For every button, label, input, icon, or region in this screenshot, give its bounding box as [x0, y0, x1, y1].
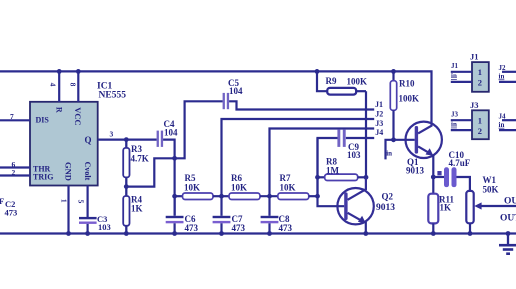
- svg-text:103: 103: [98, 222, 111, 232]
- wire bottom GND rail: [0, 232, 516, 234]
- svg-text:104: 104: [229, 86, 243, 96]
- resistor R4: [125, 187, 127, 197]
- resistor R9: [317, 71, 327, 91]
- svg-text:473: 473: [232, 223, 246, 233]
- svg-text:1M: 1M: [326, 166, 340, 176]
- svg-text:5: 5: [77, 200, 86, 204]
- svg-text:Cvolt: Cvolt: [83, 162, 92, 181]
- capacitor C10 plus marker: [437, 171, 441, 175]
- node dot pin4 rail: [57, 69, 62, 74]
- connector J3 pin1 wire: [451, 119, 472, 121]
- node dot Q2 emitter rail: [363, 231, 368, 236]
- svg-text:50K: 50K: [483, 184, 499, 194]
- svg-text:10K: 10K: [231, 183, 247, 193]
- svg-text:J2: J2: [499, 64, 507, 72]
- connector J3 box: [472, 110, 489, 139]
- svg-text:J1: J1: [375, 100, 383, 109]
- svg-text:R3: R3: [131, 144, 142, 154]
- node dot R4 rail: [124, 231, 129, 236]
- wire J2 bus: [222, 119, 375, 196]
- svg-text:DIS: DIS: [36, 116, 50, 125]
- svg-text:in: in: [499, 121, 505, 129]
- wire pin 1 GND: [67, 186, 69, 234]
- wire pin 5 Cvolt: [86, 186, 88, 218]
- capacitor C9 plates: [337, 129, 340, 147]
- svg-text:J1: J1: [470, 52, 479, 62]
- ground symbol: [507, 234, 509, 245]
- svg-text:1K: 1K: [440, 202, 452, 212]
- svg-text:1K: 1K: [131, 204, 143, 214]
- node dot R10 rail top: [391, 69, 396, 74]
- wire pin 7 DIS: [0, 119, 30, 121]
- node dot R7 right: [315, 194, 320, 199]
- svg-text:4: 4: [49, 83, 58, 87]
- svg-text:F: F: [0, 196, 4, 206]
- node dot R10 base wire: [391, 137, 396, 142]
- wire R8 left vertical: [316, 138, 318, 196]
- resistor R10: [392, 71, 394, 81]
- svg-text:J3: J3: [375, 119, 383, 128]
- svg-text:10K: 10K: [184, 183, 200, 193]
- wire pin 8 stub: [77, 71, 79, 101]
- wire R3 bottom step to node: [126, 158, 174, 186]
- node dot C7 rail: [219, 231, 224, 236]
- transistor Q1 circle: [406, 122, 442, 158]
- capacitor C3 plates: [79, 217, 97, 219]
- wire pin 6 THR: [0, 166, 30, 168]
- node dot R9 rail top: [315, 69, 320, 74]
- svg-text:473: 473: [5, 208, 18, 218]
- capacitor C6: [174, 196, 176, 216]
- capacitor C10 wire left: [433, 176, 444, 178]
- capacitor C4 plates: [157, 131, 159, 147]
- svg-text:GND: GND: [63, 162, 73, 181]
- wire C5 to J1 bus: [229, 101, 374, 109]
- svg-text:R: R: [55, 107, 64, 113]
- node dot C6 rail: [172, 231, 177, 236]
- svg-text:1: 1: [478, 116, 482, 126]
- svg-text:473: 473: [279, 223, 293, 233]
- node dot pin8 rail: [76, 69, 81, 74]
- svg-text:J2: J2: [375, 109, 383, 118]
- resistor R5: [175, 195, 183, 197]
- capacitor C8: [268, 196, 270, 216]
- svg-text:10K: 10K: [280, 183, 296, 193]
- potentiometer W1 body: [466, 191, 473, 223]
- node dot R3 bottom: [124, 184, 129, 189]
- svg-text:TRIG: TRIG: [33, 172, 53, 181]
- svg-text:J4: J4: [499, 112, 507, 120]
- wire top VCC rail: [0, 71, 432, 121]
- node dot R3 top: [124, 137, 129, 142]
- wire J4 bus right: [346, 137, 374, 139]
- svg-text:R10: R10: [399, 78, 415, 88]
- node dot C4 junction: [172, 156, 177, 161]
- transistor Q2 circle: [337, 188, 373, 224]
- resistor R8: [318, 176, 325, 178]
- transistor Q1 emitter: [418, 146, 431, 154]
- capacitor C7: [220, 196, 222, 216]
- resistor R3: [125, 140, 127, 149]
- svg-text:in: in: [451, 121, 457, 129]
- svg-text:J1: J1: [451, 62, 459, 70]
- svg-text:J4: J4: [375, 128, 383, 137]
- svg-text:1: 1: [60, 199, 69, 203]
- node dot R8 right: [364, 175, 369, 180]
- svg-text:J3: J3: [470, 100, 479, 110]
- wire C3 bottom: [86, 224, 88, 234]
- svg-text:2: 2: [478, 77, 482, 87]
- node dot C3 rail: [85, 231, 90, 236]
- svg-text:NE555: NE555: [99, 91, 127, 101]
- wire C4 out corner: [163, 140, 175, 159]
- connector J2 right wires: [502, 71, 516, 73]
- wire in stub: [386, 140, 415, 160]
- svg-text:4.7K: 4.7K: [131, 153, 149, 163]
- svg-text:in: in: [499, 72, 505, 80]
- svg-text:in: in: [386, 150, 392, 158]
- capacitor C5 plates: [223, 93, 225, 109]
- connector J1 box: [472, 62, 489, 92]
- svg-text:103: 103: [347, 150, 361, 160]
- svg-text:9013: 9013: [376, 203, 395, 213]
- transistor Q1 base bar: [415, 126, 418, 154]
- node dot R6-R7: [267, 194, 272, 199]
- svg-text:473: 473: [185, 223, 199, 233]
- node dot pin1 rail: [66, 231, 71, 236]
- resistor R11: [428, 194, 438, 224]
- wire pin 3 Q output: [98, 139, 157, 141]
- node dot ground: [506, 231, 511, 236]
- transistor Q2 collector: [348, 177, 366, 200]
- resistor R6: [229, 193, 260, 200]
- IC U1 NE555 body: [30, 102, 98, 186]
- svg-text:2: 2: [478, 126, 482, 136]
- transistor Q2 emitter: [348, 213, 364, 222]
- potentiometer W1 wiper arrow: [478, 205, 516, 207]
- node dot R11 rail: [431, 231, 436, 236]
- svg-text:Q: Q: [85, 135, 92, 145]
- wire J3 bus: [270, 129, 375, 197]
- svg-text:OUT: OUT: [504, 196, 516, 206]
- svg-text:104: 104: [164, 127, 178, 137]
- wire pin 4 stub: [58, 71, 60, 101]
- svg-text:Q2: Q2: [382, 191, 394, 201]
- svg-text:1: 1: [478, 67, 482, 77]
- resistor R7: [278, 193, 309, 200]
- node dot C10 tap: [431, 175, 436, 180]
- svg-text:4.7uF: 4.7uF: [449, 158, 471, 168]
- node dot R8 left: [315, 175, 320, 180]
- wire pin 2 TRIG: [0, 174, 30, 176]
- node dot C8 rail: [267, 231, 272, 236]
- svg-text:VCC: VCC: [73, 107, 83, 125]
- svg-text:R9: R9: [326, 76, 337, 86]
- wire Q2 base step: [318, 196, 345, 206]
- svg-text:3: 3: [110, 130, 114, 139]
- wire J4 bus left: [318, 138, 338, 196]
- wire R9 drop: [365, 91, 367, 177]
- node dot R5 left: [172, 194, 177, 199]
- svg-text:in: in: [451, 72, 457, 80]
- connector J4 right wires: [502, 119, 516, 121]
- connector J1 pin2 wire: [451, 81, 472, 83]
- capacitor C10 plates: [444, 167, 449, 187]
- connector J3 pin2 wire: [451, 129, 472, 131]
- svg-text:8: 8: [69, 83, 78, 87]
- wire C10 to W1: [457, 177, 470, 191]
- connector J1 pin1 wire: [451, 71, 472, 73]
- node dot R5-R6: [219, 194, 224, 199]
- svg-text:100K: 100K: [347, 77, 368, 87]
- svg-text:J3: J3: [451, 111, 459, 119]
- svg-text:OUT: OUT: [500, 213, 516, 223]
- svg-text:100K: 100K: [399, 94, 420, 104]
- transistor Q2 base bar: [344, 192, 347, 220]
- wire R5 feed vertical: [174, 158, 176, 215]
- transistor Q1 collector: [418, 121, 431, 133]
- wire node to C5 feed: [175, 101, 223, 158]
- node dot W1 rail: [468, 231, 473, 236]
- svg-text:2: 2: [12, 168, 16, 177]
- svg-text:9013: 9013: [406, 166, 425, 176]
- svg-text:7: 7: [10, 112, 14, 121]
